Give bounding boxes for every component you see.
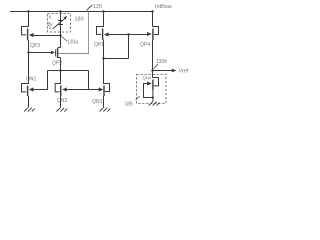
current source 180 adjust arrow xyxy=(53,18,66,29)
transistor QN1 xyxy=(22,84,34,97)
wire QN2 gate to QN3 gate xyxy=(67,89,99,91)
wire QP2 source tie to rail xyxy=(58,12,88,54)
output stage 185 dashed box xyxy=(137,75,167,104)
svg-text:QN3: QN3 xyxy=(92,99,103,105)
label 130b leader xyxy=(154,64,159,69)
node QP3 drain / QP2 gate junction xyxy=(27,51,29,53)
node 130a junction xyxy=(59,34,61,36)
svg-text:185: 185 xyxy=(125,102,134,108)
svg-text:QN1: QN1 xyxy=(26,77,37,83)
svg-text:180: 180 xyxy=(75,17,84,23)
svg-text:IntBias: IntBias xyxy=(155,4,172,10)
wire fourth branch upper xyxy=(152,12,154,27)
node QP1 drain junction xyxy=(102,57,104,59)
wire QN1 gate up to mirror node xyxy=(34,71,48,90)
label 185 leader xyxy=(136,96,141,100)
svg-text:120: 120 xyxy=(93,4,102,10)
ground output xyxy=(149,102,160,106)
wire third branch lower to ground xyxy=(103,96,105,108)
current source 180 inner ticks xyxy=(49,16,51,30)
transistor QN3 xyxy=(99,84,110,97)
ground middle xyxy=(57,108,68,112)
wire middle branch QP2 drain down xyxy=(60,58,62,84)
label 120 leader xyxy=(87,5,93,11)
svg-text:QN2: QN2 xyxy=(57,98,68,104)
wire mirror node horizontal xyxy=(48,70,89,72)
arrow Vref xyxy=(172,69,177,73)
wire gate line down to drain tie xyxy=(128,35,130,59)
ground third xyxy=(100,108,111,112)
ground left xyxy=(24,108,35,112)
wire left branch lower to ground xyxy=(28,96,30,108)
svg-text:8v: 8v xyxy=(48,22,54,28)
transistor QP4 xyxy=(147,27,158,41)
svg-text:QN4: QN4 xyxy=(143,76,152,81)
wire mirror right leg down to gate line xyxy=(88,71,90,90)
svg-text:QP4: QP4 xyxy=(140,42,150,48)
node rail end QP4 junction xyxy=(151,10,153,12)
svg-text:QP3: QP3 xyxy=(30,43,40,49)
wire third branch upper xyxy=(103,12,105,27)
transistor QP1 xyxy=(97,27,109,40)
wire QP1 gate to QP4 gate xyxy=(109,34,148,36)
wire middle branch to QP2 xyxy=(60,36,62,48)
wire QP2 gate to left branch xyxy=(29,52,51,54)
node mirror cross junction xyxy=(59,69,61,71)
node rail-QP3 junction xyxy=(27,10,29,12)
node gate line junction xyxy=(127,33,129,35)
current source 180 bars xyxy=(58,21,63,25)
transistor QN4 xyxy=(147,78,158,91)
wire fourth branch middle xyxy=(152,40,154,78)
node rail-QP1 junction xyxy=(102,10,104,12)
wire QP3 gate to node 130a xyxy=(34,35,61,37)
svg-text:Vref: Vref xyxy=(179,69,189,75)
wire middle branch from rail into box 180 xyxy=(60,12,62,36)
transistor QP3 xyxy=(22,27,34,41)
node rail-180 junction xyxy=(59,10,61,12)
node 130b junction xyxy=(151,69,153,71)
current source 180 dashed box xyxy=(48,14,71,33)
wire middle branch lower to ground xyxy=(60,96,62,108)
wire QN4 gate wrap to drain xyxy=(144,84,153,98)
wire QN4 source to ground xyxy=(152,90,154,102)
transistor QP2 xyxy=(51,48,61,59)
wire left branch upper xyxy=(28,12,30,27)
svg-text:130a: 130a xyxy=(67,40,78,46)
node QN4 diode junction xyxy=(152,96,154,98)
wire left branch middle xyxy=(28,40,30,84)
transistor QN2 xyxy=(55,84,66,97)
wire top supply rail xyxy=(10,11,153,13)
wire drain tie horizontal xyxy=(104,58,129,60)
svg-text:130b: 130b xyxy=(156,59,167,65)
label 130a leader xyxy=(62,37,68,42)
wire Vref output xyxy=(153,70,173,72)
svg-text:QP1: QP1 xyxy=(94,42,104,48)
wire third branch middle xyxy=(103,40,105,84)
